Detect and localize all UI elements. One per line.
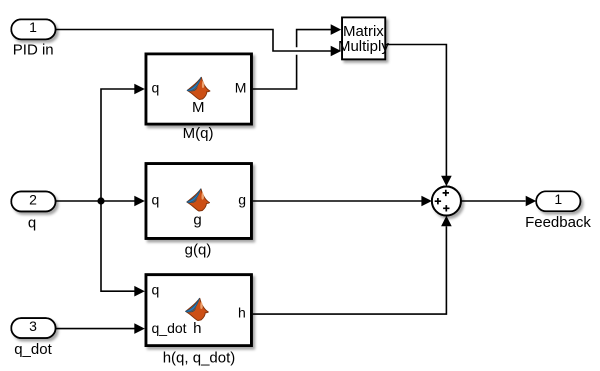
svg-text:h: h: [238, 305, 246, 321]
outport 1 Feedback: [536, 191, 580, 211]
svg-text:1: 1: [554, 191, 562, 207]
MATLAB function block h: [146, 275, 251, 346]
wire branch up to M input: [101, 89, 135, 201]
svg-text:h: h: [193, 320, 201, 337]
arrowhead into outport Feedback: [526, 196, 537, 207]
svg-text:Multiply: Multiply: [338, 38, 389, 55]
svg-text:q: q: [152, 80, 160, 96]
inport 3 q_dot: [11, 318, 55, 338]
Matrix Multiply block: [338, 17, 389, 59]
svg-text:2: 2: [29, 191, 37, 207]
svg-text:h(q, q_dot): h(q, q_dot): [163, 349, 236, 366]
svg-text:g(q): g(q): [185, 241, 212, 258]
svg-text:q: q: [152, 282, 160, 298]
svg-text:3: 3: [29, 318, 37, 334]
arrowhead into sum bottom: [441, 216, 452, 227]
wire PID in to Matrix Multiply input 2: [56, 30, 332, 52]
svg-text:g: g: [193, 211, 201, 228]
wire inport 3 to h input q_dot: [56, 328, 135, 330]
sum block: [432, 187, 461, 216]
inport 1 PID in: [11, 19, 55, 39]
wire g output to sum left: [253, 200, 422, 202]
arrowhead into g input: [134, 196, 145, 207]
svg-text:q_dot: q_dot: [14, 341, 52, 358]
inport 2 q: [11, 191, 55, 211]
arrowhead into sum left: [421, 196, 432, 207]
svg-text:q: q: [152, 192, 160, 208]
wire sum output to outport Feedback: [461, 200, 526, 202]
junction node on q wire: [97, 197, 104, 204]
wire h output to sum bottom: [253, 226, 447, 314]
svg-text:M: M: [235, 80, 247, 96]
svg-text:q_dot: q_dot: [152, 320, 187, 336]
svg-text:g: g: [238, 192, 246, 208]
wire inport 2 to g input with branch: [56, 200, 135, 202]
svg-text:PID in: PID in: [13, 42, 54, 59]
arrowhead into sum top: [441, 176, 452, 187]
MATLAB function block g: [146, 164, 251, 239]
arrowhead into M input: [134, 84, 145, 95]
wire branch down to h input q: [101, 201, 135, 291]
MATLAB function block M: [146, 54, 251, 124]
arrowhead into h input q_dot: [134, 323, 145, 334]
arrowhead into Matrix Multiply input 2: [331, 46, 342, 57]
svg-text:1: 1: [29, 19, 37, 35]
svg-text:M(q): M(q): [183, 125, 214, 142]
arrowhead into Matrix Multiply input 1: [331, 24, 342, 35]
svg-text:q: q: [28, 215, 36, 232]
svg-text:Feedback: Feedback: [525, 214, 591, 231]
arrowhead into h input q: [134, 286, 145, 297]
svg-text:M: M: [192, 99, 205, 116]
wire M output to Matrix Multiply input 1: [253, 30, 331, 89]
wire Matrix Multiply output to sum top: [385, 45, 446, 177]
